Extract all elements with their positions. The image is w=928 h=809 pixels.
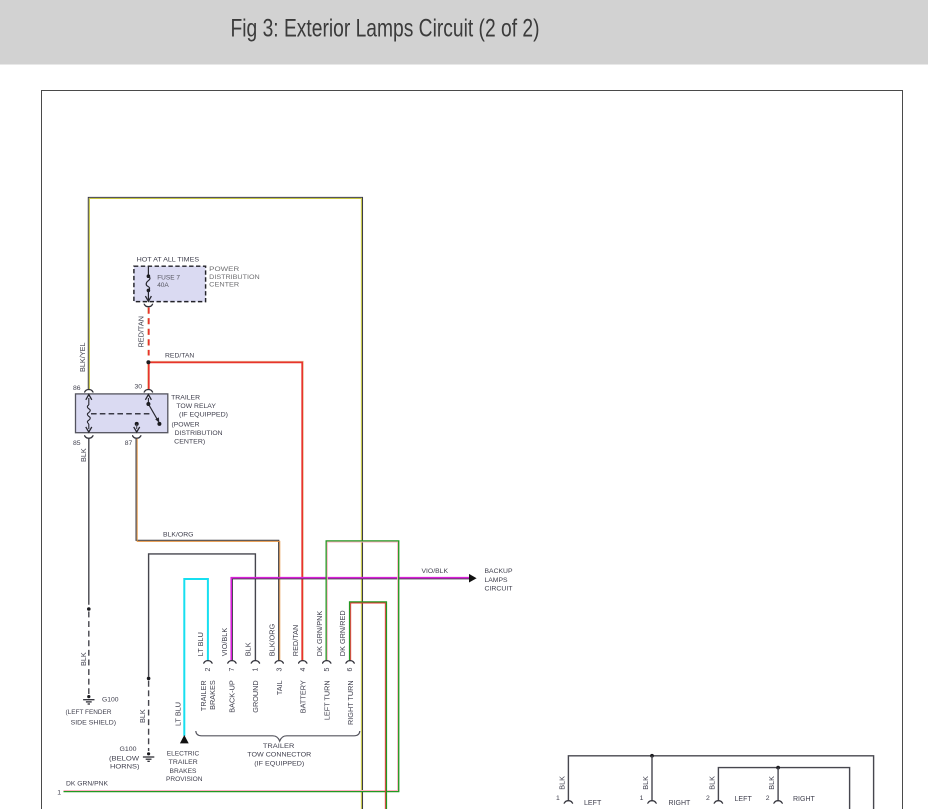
svg-text:BRAKES: BRAKES [170, 768, 197, 775]
node junction [650, 754, 654, 758]
svg-text:BLK/YEL: BLK/YEL [78, 342, 87, 372]
svg-text:BATTERY: BATTERY [298, 680, 307, 713]
svg-text:1: 1 [253, 668, 260, 672]
node junction RED/TAN [146, 360, 150, 364]
svg-text:POWER: POWER [209, 266, 239, 273]
node splice [147, 677, 151, 681]
connector pin 3 [275, 661, 284, 664]
node splice [87, 607, 91, 611]
svg-text:BACK-UP: BACK-UP [228, 680, 237, 713]
svg-text:RED/TAN: RED/TAN [165, 353, 194, 360]
svg-text:TRAILER: TRAILER [199, 680, 208, 711]
fuse box (power distribution center) [134, 266, 206, 301]
svg-text:RIGHT: RIGHT [669, 800, 692, 807]
svg-text:DK GRN/PNK: DK GRN/PNK [315, 611, 324, 657]
svg-text:ELECTRIC: ELECTRIC [167, 750, 200, 757]
svg-text:1: 1 [57, 789, 61, 796]
connector pin 1 [251, 661, 260, 664]
svg-text:BLK: BLK [79, 652, 88, 666]
wire BLK dashed to ground [88, 612, 90, 695]
svg-text:LT BLU: LT BLU [173, 702, 182, 726]
svg-text:TOW RELAY: TOW RELAY [176, 403, 216, 410]
svg-text:4: 4 [300, 668, 307, 672]
svg-text:HOT AT ALL TIMES: HOT AT ALL TIMES [137, 256, 200, 263]
connector pin 6 [345, 661, 354, 664]
ground G100 (below horns) [147, 752, 150, 755]
svg-text:87: 87 [125, 440, 133, 447]
relay pin 85 arc [84, 436, 93, 439]
wire LT BLU electric trailer brakes to connector pin 2 [184, 579, 208, 736]
wire BLK/ORG from relay pin 87 to connector pin 3 [136, 439, 279, 661]
svg-text:LEFT TURN: LEFT TURN [322, 680, 331, 720]
svg-text:2: 2 [766, 795, 770, 802]
svg-text:TRAILER: TRAILER [169, 759, 198, 766]
connector pin 5 [322, 661, 331, 664]
svg-text:CENTER: CENTER [209, 282, 239, 289]
svg-text:DK GRN/RED: DK GRN/RED [338, 610, 347, 656]
svg-text:FUSE 7: FUSE 7 [157, 274, 180, 281]
lamp pin 2 [773, 801, 782, 804]
svg-text:BLK: BLK [79, 448, 88, 462]
relay TRAILER TOW RELAY box [76, 394, 168, 433]
svg-text:VIO/BLK: VIO/BLK [422, 568, 449, 575]
wire BLK bus lower (lamps 2) [718, 768, 849, 809]
svg-text:2: 2 [706, 795, 710, 802]
relay pin 87 arc [132, 436, 141, 439]
svg-text:BLK: BLK [557, 776, 566, 790]
svg-text:DISTRIBUTION: DISTRIBUTION [209, 274, 260, 281]
svg-text:(BELOW: (BELOW [109, 755, 140, 762]
svg-text:6: 6 [347, 668, 354, 672]
electric trailer brakes provision arrow [180, 735, 189, 743]
svg-text:VIO/BLK: VIO/BLK [220, 628, 229, 657]
svg-text:RED/TAN: RED/TAN [291, 625, 300, 657]
svg-text:G100: G100 [120, 746, 137, 753]
svg-text:LAMPS: LAMPS [485, 577, 508, 584]
wire BLK from relay pin 85 [88, 439, 90, 605]
svg-text:RIGHT TURN: RIGHT TURN [346, 680, 355, 725]
svg-text:SIDE SHIELD): SIDE SHIELD) [71, 719, 117, 726]
svg-text:GROUND: GROUND [251, 680, 260, 712]
svg-text:LEFT: LEFT [735, 796, 753, 803]
lamp pin 2 [714, 801, 723, 804]
svg-text:7: 7 [229, 668, 236, 672]
svg-text:2: 2 [205, 668, 212, 672]
wire DK GRN/PNK connector pin 5 loop to left [64, 541, 399, 792]
svg-text:(LEFT FENDER: (LEFT FENDER [66, 709, 112, 716]
relay coil [88, 398, 90, 405]
node junction [776, 766, 780, 770]
svg-text:3: 3 [276, 668, 283, 672]
svg-text:(IF EQUIPPED): (IF EQUIPPED) [179, 412, 228, 419]
svg-text:CENTER): CENTER) [174, 439, 205, 446]
fuse F7 element [147, 266, 149, 275]
svg-text:CIRCUIT: CIRCUIT [485, 586, 513, 593]
wire DK GRN/RED connector pin 6 down right side [350, 602, 387, 809]
svg-text:TAIL: TAIL [275, 680, 284, 695]
svg-text:TRAILER: TRAILER [171, 394, 200, 401]
relay pin 87 contact [135, 422, 139, 426]
svg-text:1: 1 [640, 795, 644, 802]
svg-text:RED/TAN: RED/TAN [137, 316, 146, 348]
relay actuating link (dashed) [91, 413, 150, 415]
svg-text:30: 30 [134, 384, 142, 391]
svg-text:TRAILER: TRAILER [263, 743, 295, 750]
relay pin 30 arc [144, 390, 153, 393]
wire RED/TAN dashed from fuse down [147, 308, 149, 356]
wire RED/TAN junction to relay pin 30 [147, 362, 149, 389]
wire to pin 2 right [777, 768, 779, 801]
wire BLK/YEL from relay pin 86 up, across top, down right side [88, 197, 362, 809]
svg-text:DISTRIBUTION: DISTRIBUTION [175, 430, 223, 437]
wire BLK dashed to ground [148, 681, 150, 751]
svg-text:BLK: BLK [138, 709, 147, 723]
svg-text:RIGHT: RIGHT [793, 796, 816, 803]
svg-text:BLK/ORG: BLK/ORG [163, 531, 194, 538]
wire BLK bus upper (lamps 1) [568, 756, 873, 809]
svg-text:1: 1 [556, 795, 560, 802]
wire VIO/BLK connector pin 7 to backup lamps circuit [231, 578, 469, 661]
wire BLK ground run to connector pin 1 [149, 554, 256, 677]
svg-text:85: 85 [73, 440, 81, 447]
svg-text:40A: 40A [157, 282, 169, 289]
svg-text:Fig 3: Exterior Lamps Circuit: Fig 3: Exterior Lamps Circuit (2 of 2) [231, 15, 540, 43]
svg-text:LT BLU: LT BLU [196, 632, 205, 656]
ground G100 (left fender side shield) [87, 695, 90, 698]
lamp pin 1 [564, 801, 573, 804]
svg-text:(POWER: (POWER [172, 421, 200, 428]
svg-text:TOW CONNECTOR: TOW CONNECTOR [247, 752, 311, 759]
connector pin 2 [203, 661, 212, 664]
svg-text:BLK: BLK [641, 776, 650, 790]
wire to pin 1 right [651, 756, 653, 800]
svg-text:BLK: BLK [767, 776, 776, 790]
relay pin 86 arc [84, 390, 93, 393]
svg-text:(IF EQUIPPED): (IF EQUIPPED) [254, 760, 304, 767]
svg-text:HORNS): HORNS) [110, 764, 140, 771]
fuse output pin arc [144, 304, 153, 307]
svg-text:PROVISION: PROVISION [166, 776, 203, 783]
lamp pin 1 [647, 801, 656, 804]
wire RED/TAN junction right and down to connector pin 4 [148, 361, 303, 660]
connector pin 4 [298, 661, 307, 664]
header bar [0, 0, 928, 65]
svg-text:86: 86 [73, 385, 81, 392]
svg-text:G100: G100 [102, 696, 119, 703]
arrow to backup lamps circuit [469, 574, 477, 583]
svg-text:BLK: BLK [244, 642, 253, 656]
relay switch pin 30 to 87 [147, 398, 149, 404]
svg-text:5: 5 [324, 668, 331, 672]
svg-text:BLK/ORG: BLK/ORG [267, 623, 276, 656]
connector pin 7 [227, 661, 236, 664]
svg-text:BRAKES: BRAKES [208, 680, 217, 710]
svg-text:LEFT: LEFT [584, 800, 602, 807]
svg-text:DK GRN/PNK: DK GRN/PNK [66, 780, 108, 787]
svg-text:BLK: BLK [707, 776, 716, 790]
trailer tow connector brace [196, 731, 360, 741]
svg-text:BACKUP: BACKUP [485, 568, 513, 575]
